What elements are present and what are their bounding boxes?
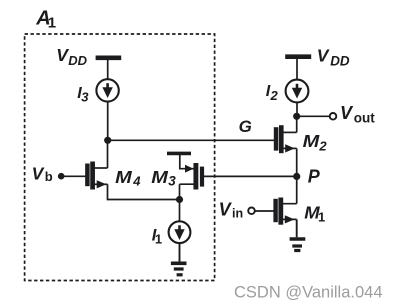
label VDD (left): [56, 45, 87, 68]
svg-text:1: 1: [318, 210, 325, 225]
wire M3 bar to source arrow: [180, 153, 194, 168]
amplifier A1 dashed boundary box: [25, 34, 215, 281]
watermark CSDN: [234, 284, 383, 302]
svg-text:2: 2: [270, 88, 279, 103]
label M3: [151, 167, 176, 189]
wire Vin to gate of M1: [255, 210, 274, 212]
label Vin: [219, 199, 244, 220]
label Vb: [32, 164, 53, 184]
svg-text:V: V: [56, 45, 69, 65]
wire node to I1: [179, 200, 181, 222]
wire node to Vout terminal: [297, 115, 330, 117]
svg-text:in: in: [232, 207, 243, 221]
svg-text:1: 1: [155, 232, 162, 247]
node junction above I1: [176, 196, 183, 203]
wire node down to drain of M4: [107, 140, 109, 168]
current source I3: [96, 79, 118, 101]
VDD supply bar (right): [285, 54, 311, 59]
svg-text:DD: DD: [68, 53, 87, 68]
Vb input dot terminal: [58, 173, 65, 180]
transistor M4: [87, 162, 107, 190]
label I1: [152, 226, 162, 246]
node P junction: [293, 173, 300, 180]
wire Vb to gate of M4: [61, 175, 86, 177]
wire source of M2 down to node P: [296, 148, 298, 176]
wire node to gate of M2 (net G): [108, 139, 275, 141]
label A1: [35, 8, 56, 32]
node junction below I3: [104, 137, 111, 144]
transistor M2: [276, 125, 297, 153]
output node junction: [293, 113, 300, 120]
Vin open-circle terminal: [248, 208, 255, 215]
svg-text:3: 3: [168, 174, 176, 189]
svg-text:DD: DD: [330, 53, 350, 68]
wire output node to drain of M2: [296, 116, 298, 132]
label P: [308, 167, 321, 187]
wire I3 to node A: [107, 102, 109, 141]
wire I1 to ground: [179, 244, 181, 262]
label VDD (right): [317, 45, 350, 68]
label I3: [77, 85, 89, 104]
svg-text:V: V: [219, 199, 233, 219]
svg-text:1: 1: [48, 14, 56, 31]
current source I1: [169, 221, 191, 243]
wire source of M1 to ground: [296, 219, 298, 237]
svg-text:2: 2: [318, 139, 327, 154]
svg-text:out: out: [354, 111, 375, 126]
svg-text:M: M: [115, 167, 132, 187]
ground symbol under I1: [171, 263, 187, 275]
label I2: [266, 83, 279, 103]
svg-text:V: V: [340, 103, 354, 123]
current source I2: [286, 80, 309, 103]
VDD bulk bar for M3: [167, 152, 191, 156]
svg-text:V: V: [317, 45, 330, 65]
svg-text:G: G: [239, 117, 252, 136]
svg-text:b: b: [45, 169, 53, 184]
transistor M1: [276, 198, 297, 225]
Vout open-circle terminal: [330, 113, 337, 120]
wire node P down to drain of M1: [296, 176, 298, 203]
svg-text:P: P: [308, 167, 321, 187]
transistor M3: [180, 163, 203, 200]
wire gate of M3 to node P: [204, 175, 297, 177]
label G (gate net of M2): [239, 117, 252, 136]
svg-text:3: 3: [81, 90, 89, 105]
wire I2 to output node: [296, 102, 298, 116]
svg-text:CSDN @Vanilla.044: CSDN @Vanilla.044: [234, 284, 383, 302]
ground symbol under M1: [290, 239, 306, 251]
wire VDD bar to I2: [296, 57, 298, 80]
VDD supply bar (left, inside A1): [96, 55, 122, 60]
label M2: [303, 131, 328, 154]
svg-text:M: M: [303, 131, 320, 151]
label M1: [304, 202, 325, 224]
wire VDD bar to I3: [107, 58, 109, 80]
svg-text:4: 4: [132, 174, 141, 189]
label M4: [115, 167, 141, 189]
svg-text:V: V: [32, 164, 45, 184]
wire source of M4 down and right to node: [108, 184, 180, 199]
label Vout: [340, 103, 375, 126]
svg-text:M: M: [151, 167, 168, 187]
